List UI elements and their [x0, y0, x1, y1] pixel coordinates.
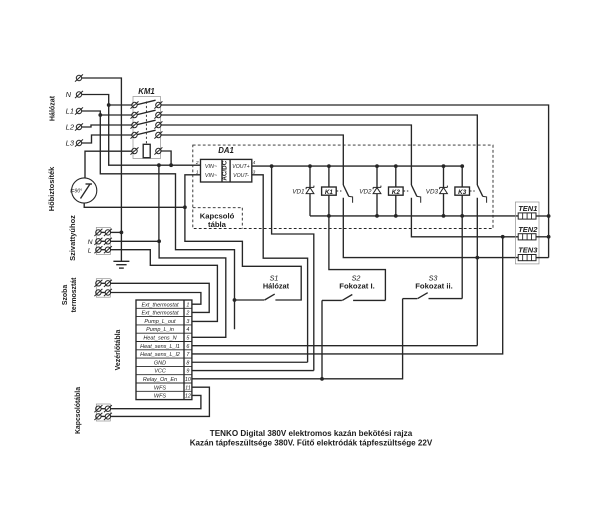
switch contact K3 [470, 185, 487, 203]
svg-text:Ext_thermostat: Ext_thermostat [142, 302, 179, 308]
contactor KM1 contact 2 [131, 110, 163, 118]
node VD3 return junction [442, 214, 446, 218]
wire K3 contact out [476, 198, 478, 346]
svg-text:VCC: VCC [154, 369, 166, 375]
switch S3 [403, 293, 463, 299]
svg-text:Kapcsolótábla: Kapcsolótábla [75, 387, 82, 434]
node K1 bus junction [327, 164, 331, 168]
svg-text:Szivattyúhoz: Szivattyúhoz [68, 215, 77, 261]
svg-text:VOUT-: VOUT- [233, 173, 249, 179]
node S1 left junction [233, 298, 237, 302]
svg-text:11: 11 [185, 385, 191, 391]
svg-text:3: 3 [186, 319, 189, 325]
svg-text:AC/DC: AC/DC [221, 160, 228, 180]
svg-text:VIN~: VIN~ [205, 173, 217, 179]
svg-text:WFS: WFS [154, 385, 167, 391]
svg-text:TEN2: TEN2 [518, 225, 538, 234]
svg-text:2: 2 [195, 160, 199, 166]
node K3 return junction [460, 214, 464, 218]
boundary Kapcsolo tabla outer [193, 145, 493, 228]
wire TEN3 right [536, 257, 549, 259]
svg-text:VD3: VD3 [426, 188, 439, 195]
node TEN1 N junction [547, 214, 551, 218]
switch contact K2 [403, 185, 420, 203]
svg-text:Szoba: Szoba [62, 285, 69, 305]
heater TEN1 [518, 213, 536, 219]
svg-text:Fokozat ii.: Fokozat ii. [415, 282, 453, 291]
terminal N [75, 91, 83, 98]
svg-text:L: L [88, 247, 92, 254]
terminal L2 [75, 123, 83, 130]
wire VIN1 from fuse [185, 175, 301, 300]
relay coil K2 [389, 166, 404, 216]
label Szoba termosztat [62, 277, 78, 313]
svg-text:8: 8 [186, 360, 189, 366]
wire KM1 row4 to K1 contact [161, 135, 343, 185]
svg-text:4: 4 [253, 160, 256, 166]
svg-text:VD1: VD1 [292, 188, 304, 195]
svg-text:DA1: DA1 [218, 146, 234, 155]
svg-text:K3: K3 [458, 189, 467, 196]
terminal switchboard row y416.4 [94, 413, 112, 420]
svg-text:12: 12 [185, 394, 191, 400]
relay coil K1 [322, 166, 337, 216]
svg-text:TEN1: TEN1 [518, 204, 537, 213]
wire ground drop [120, 232, 122, 261]
connector TEN block outline [515, 202, 539, 264]
wire KM1 row1 left stub [109, 104, 132, 106]
contactor KM1 contact 4 [131, 130, 163, 138]
node K3-TEN3 junction [475, 256, 479, 260]
node fuse-VIN1 junction [183, 205, 187, 209]
svg-text:GND: GND [154, 360, 166, 366]
contactor KM1 mechanical link [145, 102, 147, 145]
svg-text:WFS: WFS [154, 394, 167, 400]
node K1 return junction [327, 214, 331, 218]
wire KM1 row2 to K3 contact [161, 115, 477, 185]
wire VIN2-pumpN-pin5 [158, 165, 160, 241]
svg-text:10: 10 [185, 377, 191, 383]
wire pump row1 to ground [111, 231, 122, 233]
wire L2 feed [82, 125, 132, 127]
svg-text:L3: L3 [66, 139, 75, 148]
node VIN2 tap [157, 163, 161, 167]
svg-text:Pump_L_out: Pump_L_out [144, 319, 176, 325]
svg-text:L2: L2 [66, 123, 75, 132]
node TEN2 sense junction [501, 235, 505, 239]
terminal pump row y232.4 [94, 229, 112, 236]
boundary Kapcsolo tabla inner [193, 208, 243, 229]
node VD3 bus junction [442, 164, 446, 168]
wire pumpN to pin5 [159, 241, 226, 337]
wire KM1 row3 to K2 contact [161, 125, 411, 185]
converter DA1 [201, 159, 252, 182]
wire pin12 WFS [111, 395, 201, 408]
terminal pump row y249.7 [94, 246, 112, 253]
switch contact K1 [336, 185, 352, 203]
node VD2 bus junction [375, 164, 379, 168]
wire KM1 row1 to TEN bus [161, 105, 548, 258]
node TEN2 N junction [547, 235, 551, 239]
wire K3 coil to S3 [461, 216, 463, 299]
node VD1 bus junction [308, 164, 312, 168]
svg-text:VOUT+: VOUT+ [232, 164, 249, 170]
svg-text:K2: K2 [392, 189, 401, 196]
wire pin9 VCC [192, 370, 314, 372]
svg-text:termosztát: termosztát [71, 277, 78, 313]
switch S2 [322, 295, 385, 301]
wire pin6 sense [192, 345, 477, 347]
diode VD1 [306, 166, 314, 216]
svg-text:1: 1 [186, 302, 189, 308]
heater TEN3 [518, 255, 536, 261]
wire pump L to pin3 [111, 250, 218, 322]
wire K2 contact out [411, 198, 518, 237]
node K2 bus junction [394, 164, 398, 168]
connector pump block [96, 227, 110, 254]
wire TEN2 right [536, 236, 549, 238]
contactor KM1 outline [133, 97, 161, 159]
svg-text:L1: L1 [66, 107, 74, 116]
svg-text:K1: K1 [325, 189, 334, 196]
svg-text:Relay_On_En: Relay_On_En [143, 377, 177, 383]
node T0 feed terminal [75, 74, 83, 81]
wire N feed [82, 95, 201, 166]
wire L1 feed [82, 111, 235, 329]
node K2 return junction [394, 214, 398, 218]
node VD2 return junction [375, 214, 379, 218]
wire L3 feed [82, 135, 132, 143]
wire K1 coil to S2 [329, 216, 386, 301]
wire S2 left to pin10 [321, 300, 323, 378]
svg-text:Hálózat: Hálózat [263, 282, 290, 291]
svg-text:VD2: VD2 [359, 188, 372, 195]
svg-text:Heat_sens_N: Heat_sens_N [143, 335, 176, 341]
ground symbol [113, 261, 129, 268]
terminal switchboard row y408.7 [94, 405, 112, 412]
switch S1 [235, 294, 275, 300]
svg-text:Hőbiztosíték: Hőbiztosíték [47, 166, 56, 211]
node pump N junction [157, 239, 161, 243]
terminal pump row y241.3 [94, 238, 112, 245]
diode VD3 [440, 166, 448, 216]
contactor KM1 contact 3 [131, 120, 163, 128]
svg-text:KM1: KM1 [138, 87, 154, 96]
svg-text:2: 2 [185, 311, 189, 317]
svg-text:VIN~: VIN~ [205, 164, 217, 170]
terminal L3 [75, 139, 83, 146]
svg-text:N: N [66, 90, 72, 99]
svg-text:N: N [88, 239, 93, 246]
connector control board table [136, 300, 192, 400]
wire TEN1 right [536, 215, 549, 217]
svg-text:Heat_sens_L_l1: Heat_sens_L_l1 [140, 344, 180, 350]
node N-KM1 junction [107, 103, 111, 107]
contactor KM1 contact 1 [131, 100, 163, 108]
wire VOUT- branch [252, 175, 308, 362]
wire coil left to fuse [85, 151, 132, 178]
svg-text:Ext_thermostat: Ext_thermostat [142, 311, 179, 317]
terminal thermostat row y292.5 [94, 289, 112, 296]
wire pin2 to thermostat [111, 283, 209, 312]
wire pin1 to thermostat [111, 293, 201, 305]
svg-text:Hálózat: Hálózat [49, 95, 57, 121]
contactor KM1 coil [131, 144, 163, 157]
svg-text:TEN3: TEN3 [518, 246, 538, 255]
wire fuse bottom [84, 203, 185, 207]
svg-text:tábla: tábla [208, 220, 227, 229]
wire pin11 WFS [111, 387, 210, 416]
connector switchboard block [96, 404, 110, 421]
wire pin7 sense [192, 237, 503, 354]
connector thermostat block [96, 279, 110, 298]
wire relay return line [310, 215, 518, 217]
svg-text:TENKO Digital 380V elektromos: TENKO Digital 380V elektromos kazán bekö… [210, 429, 413, 438]
terminal thermostat row y283.3 [94, 280, 112, 287]
label Kapcsolo tabla [200, 212, 235, 230]
node L1-KM1 junction [98, 113, 102, 117]
svg-text:Fokozat I.: Fokozat I. [339, 282, 374, 291]
node coil-VIN junction [169, 163, 173, 167]
wire pump N row [111, 240, 160, 242]
wire K1 contact out [343, 198, 518, 258]
wire pin10 relay enable [192, 299, 403, 379]
svg-text:t=90°: t=90° [70, 188, 82, 194]
diode VD2 [373, 166, 381, 216]
svg-text:Vezérlőtábla: Vezérlőtábla [115, 329, 122, 370]
node K3 bus junction [460, 164, 464, 168]
node ground junction [120, 231, 124, 235]
svg-text:Kazán tápfeszültsége 380V. Fűt: Kazán tápfeszültsége 380V. Fűtő elektród… [190, 438, 433, 447]
svg-text:Heat_sens_L_l2: Heat_sens_L_l2 [140, 352, 180, 358]
svg-text:9: 9 [186, 369, 189, 375]
thermal fuse F1 [70, 178, 97, 203]
svg-text:4: 4 [186, 327, 189, 333]
svg-text:Pump_L_in: Pump_L_in [146, 327, 174, 333]
wire pin8 GND [192, 361, 308, 363]
wire KM1 row2 left stub [100, 114, 132, 116]
node S2-pin10 junction [320, 377, 324, 381]
svg-text:6: 6 [186, 344, 189, 350]
wire VOUT+ bus [252, 165, 462, 167]
terminal L1 [75, 107, 83, 114]
wire T0 to ground-drop [82, 78, 122, 232]
wire VCC branch [272, 166, 314, 370]
wire coil right to VIN line [161, 151, 171, 165]
heater TEN2 [518, 234, 536, 240]
relay coil K3 [455, 166, 470, 216]
node VCC tap [270, 164, 274, 168]
